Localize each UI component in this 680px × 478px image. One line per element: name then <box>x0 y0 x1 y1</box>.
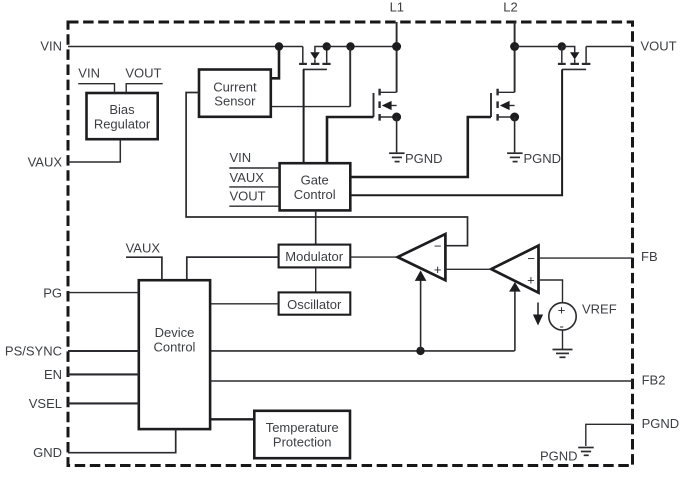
svg-text:Temperature: Temperature <box>266 420 339 435</box>
svg-text:PG: PG <box>43 285 62 300</box>
wire Q3 source to PGND <box>396 117 398 152</box>
node junction dot soft-start branch <box>416 347 424 355</box>
voltage source VREF <box>549 303 576 330</box>
svg-text:Control: Control <box>154 339 196 354</box>
svg-text:Gate: Gate <box>301 172 329 187</box>
node junction dot L1 <box>392 42 401 51</box>
svg-text:FB2: FB2 <box>642 373 666 388</box>
transistor Q4 low-side NMOS under L2 <box>491 89 515 121</box>
svg-text:+: + <box>527 272 535 287</box>
svg-text:FB: FB <box>641 249 658 264</box>
wire Q3 gate drive (heavy) to Gate Control top <box>327 117 374 163</box>
wire PGND pin to ground <box>586 424 633 446</box>
ground PGND symbol 2 <box>507 153 522 161</box>
svg-text:VIN: VIN <box>230 150 252 165</box>
IC boundary dashed border <box>68 22 633 466</box>
wire Modulator bottom to Oscillator <box>315 267 317 292</box>
svg-text:Sensor: Sensor <box>214 93 256 108</box>
node junction dot Q3 source <box>392 113 401 122</box>
svg-text:VIN: VIN <box>78 65 100 80</box>
svg-text:GND: GND <box>33 445 62 460</box>
svg-text:+: + <box>558 303 566 318</box>
svg-text:Current: Current <box>213 80 257 95</box>
wire Device Control to Oscillator <box>210 303 279 305</box>
transistor Q2 output high-side switch with body diode D2 <box>558 47 591 70</box>
wire U4 output to U3 plus input <box>445 268 491 270</box>
svg-text:VIN: VIN <box>40 39 62 54</box>
wire GND pin to Device Control bottom <box>68 429 176 453</box>
wire L2 pin vertical <box>514 22 516 92</box>
wire ramp arrow into U4 <box>514 291 516 351</box>
svg-text:VOUT: VOUT <box>641 39 677 54</box>
wire FB pin to U4 minus input <box>539 257 633 259</box>
wire current-sense tap (heavy) <box>271 47 279 79</box>
block Temperature Protection U9 <box>254 411 350 458</box>
svg-text:VAUX: VAUX <box>28 154 63 169</box>
svg-text:VSEL: VSEL <box>29 396 62 411</box>
wire L1 pin vertical <box>396 22 398 92</box>
svg-text:PS/SYNC: PS/SYNC <box>5 344 62 359</box>
wire VSEL pin <box>68 402 139 404</box>
svg-text:VAUX: VAUX <box>230 170 265 185</box>
wire Q1 gate drive to Gate Control <box>303 69 305 163</box>
wire Q4 source to PGND <box>514 117 516 152</box>
wire Q2 gate drive to Gate Control <box>350 69 562 195</box>
op-amp U4 error amplifier <box>491 246 538 293</box>
wire Device Control to Temperature Protection <box>210 418 254 420</box>
wire sense tap 2 down to current sensor output line <box>349 47 351 107</box>
block Oscillator U8 <box>279 292 351 314</box>
svg-text:L1: L1 <box>390 0 404 15</box>
svg-text:−: − <box>527 251 535 266</box>
svg-text:Protection: Protection <box>273 434 332 449</box>
svg-text:Modulator: Modulator <box>285 249 343 264</box>
svg-text:PGND: PGND <box>524 151 562 166</box>
transistor Q1 input high-side switch with body diode D1 <box>299 47 331 70</box>
wire Device Control top to Modulator left <box>187 257 279 280</box>
block Bias Regulator U1 <box>87 93 158 139</box>
svg-text:Bias: Bias <box>109 102 135 117</box>
node junction dot on VIN rail (current sense tap) <box>275 42 283 50</box>
wire FB2 line from Device Control <box>210 380 633 382</box>
svg-text:PGND: PGND <box>405 151 443 166</box>
wire VIN rail <box>68 46 303 48</box>
block Gate Control U6 <box>280 163 351 210</box>
ground PGND symbol bottom right <box>578 448 594 456</box>
wire current sensor output to comparator U3 minus input <box>186 93 467 246</box>
node junction dot Q2 drain <box>558 42 566 50</box>
node junction dot current-sense tap 2 <box>346 42 354 50</box>
wire VREF to ground <box>562 330 564 349</box>
wire current sensor right pin <box>271 106 350 108</box>
wire VAUX pin to bias regulator <box>68 139 120 162</box>
svg-text:Regulator: Regulator <box>94 117 151 132</box>
svg-text:Oscillator: Oscillator <box>287 297 342 312</box>
svg-text:VAUX: VAUX <box>126 240 161 255</box>
node junction dot Q4 source <box>510 113 519 122</box>
node junction dot Q1 drain <box>323 42 331 50</box>
wire Q4 gate drive (heavy) to Gate Control right <box>350 117 491 177</box>
wire EN pin <box>68 373 139 375</box>
wire rail Q1 to L1 <box>327 46 397 48</box>
svg-text:Control: Control <box>294 187 336 202</box>
svg-text:PGND: PGND <box>540 449 578 464</box>
block Current Sensor U2 <box>199 70 271 117</box>
wire PS/SYNC pin <box>68 350 139 352</box>
svg-text:VOUT: VOUT <box>125 65 161 80</box>
ground symbol under VREF <box>553 350 573 358</box>
ground PGND symbol 1 <box>389 153 405 161</box>
wire VOUT rail <box>586 46 632 48</box>
wire Gate Control bottom to Modulator <box>315 210 317 244</box>
svg-text:VOUT: VOUT <box>230 188 266 203</box>
node junction dot L2 <box>510 42 519 51</box>
svg-text:−: − <box>434 238 442 253</box>
wire soft-start line from Device Control <box>210 350 515 352</box>
wire rail L2 to Q2 <box>515 46 562 48</box>
svg-text:VREF: VREF <box>582 302 617 317</box>
svg-text:Device: Device <box>155 325 195 340</box>
block Device Control U5 <box>139 280 210 429</box>
svg-text:PGND: PGND <box>642 416 680 431</box>
svg-text:+: + <box>434 262 442 277</box>
wire ramp arrow into U3 <box>420 281 422 351</box>
svg-text:L2: L2 <box>503 0 517 15</box>
block Modulator U7 <box>279 245 351 268</box>
wire U4 plus input to VREF <box>539 280 563 303</box>
wire PG pin <box>68 292 139 294</box>
transistor Q3 low-side NMOS under L1 <box>374 89 397 121</box>
svg-text:EN: EN <box>44 367 62 382</box>
op-amp U3 PWM comparator <box>398 234 446 280</box>
soft-start ramp arrow (down) <box>537 303 539 315</box>
wire Modulator to comparator U3 output <box>350 256 397 258</box>
